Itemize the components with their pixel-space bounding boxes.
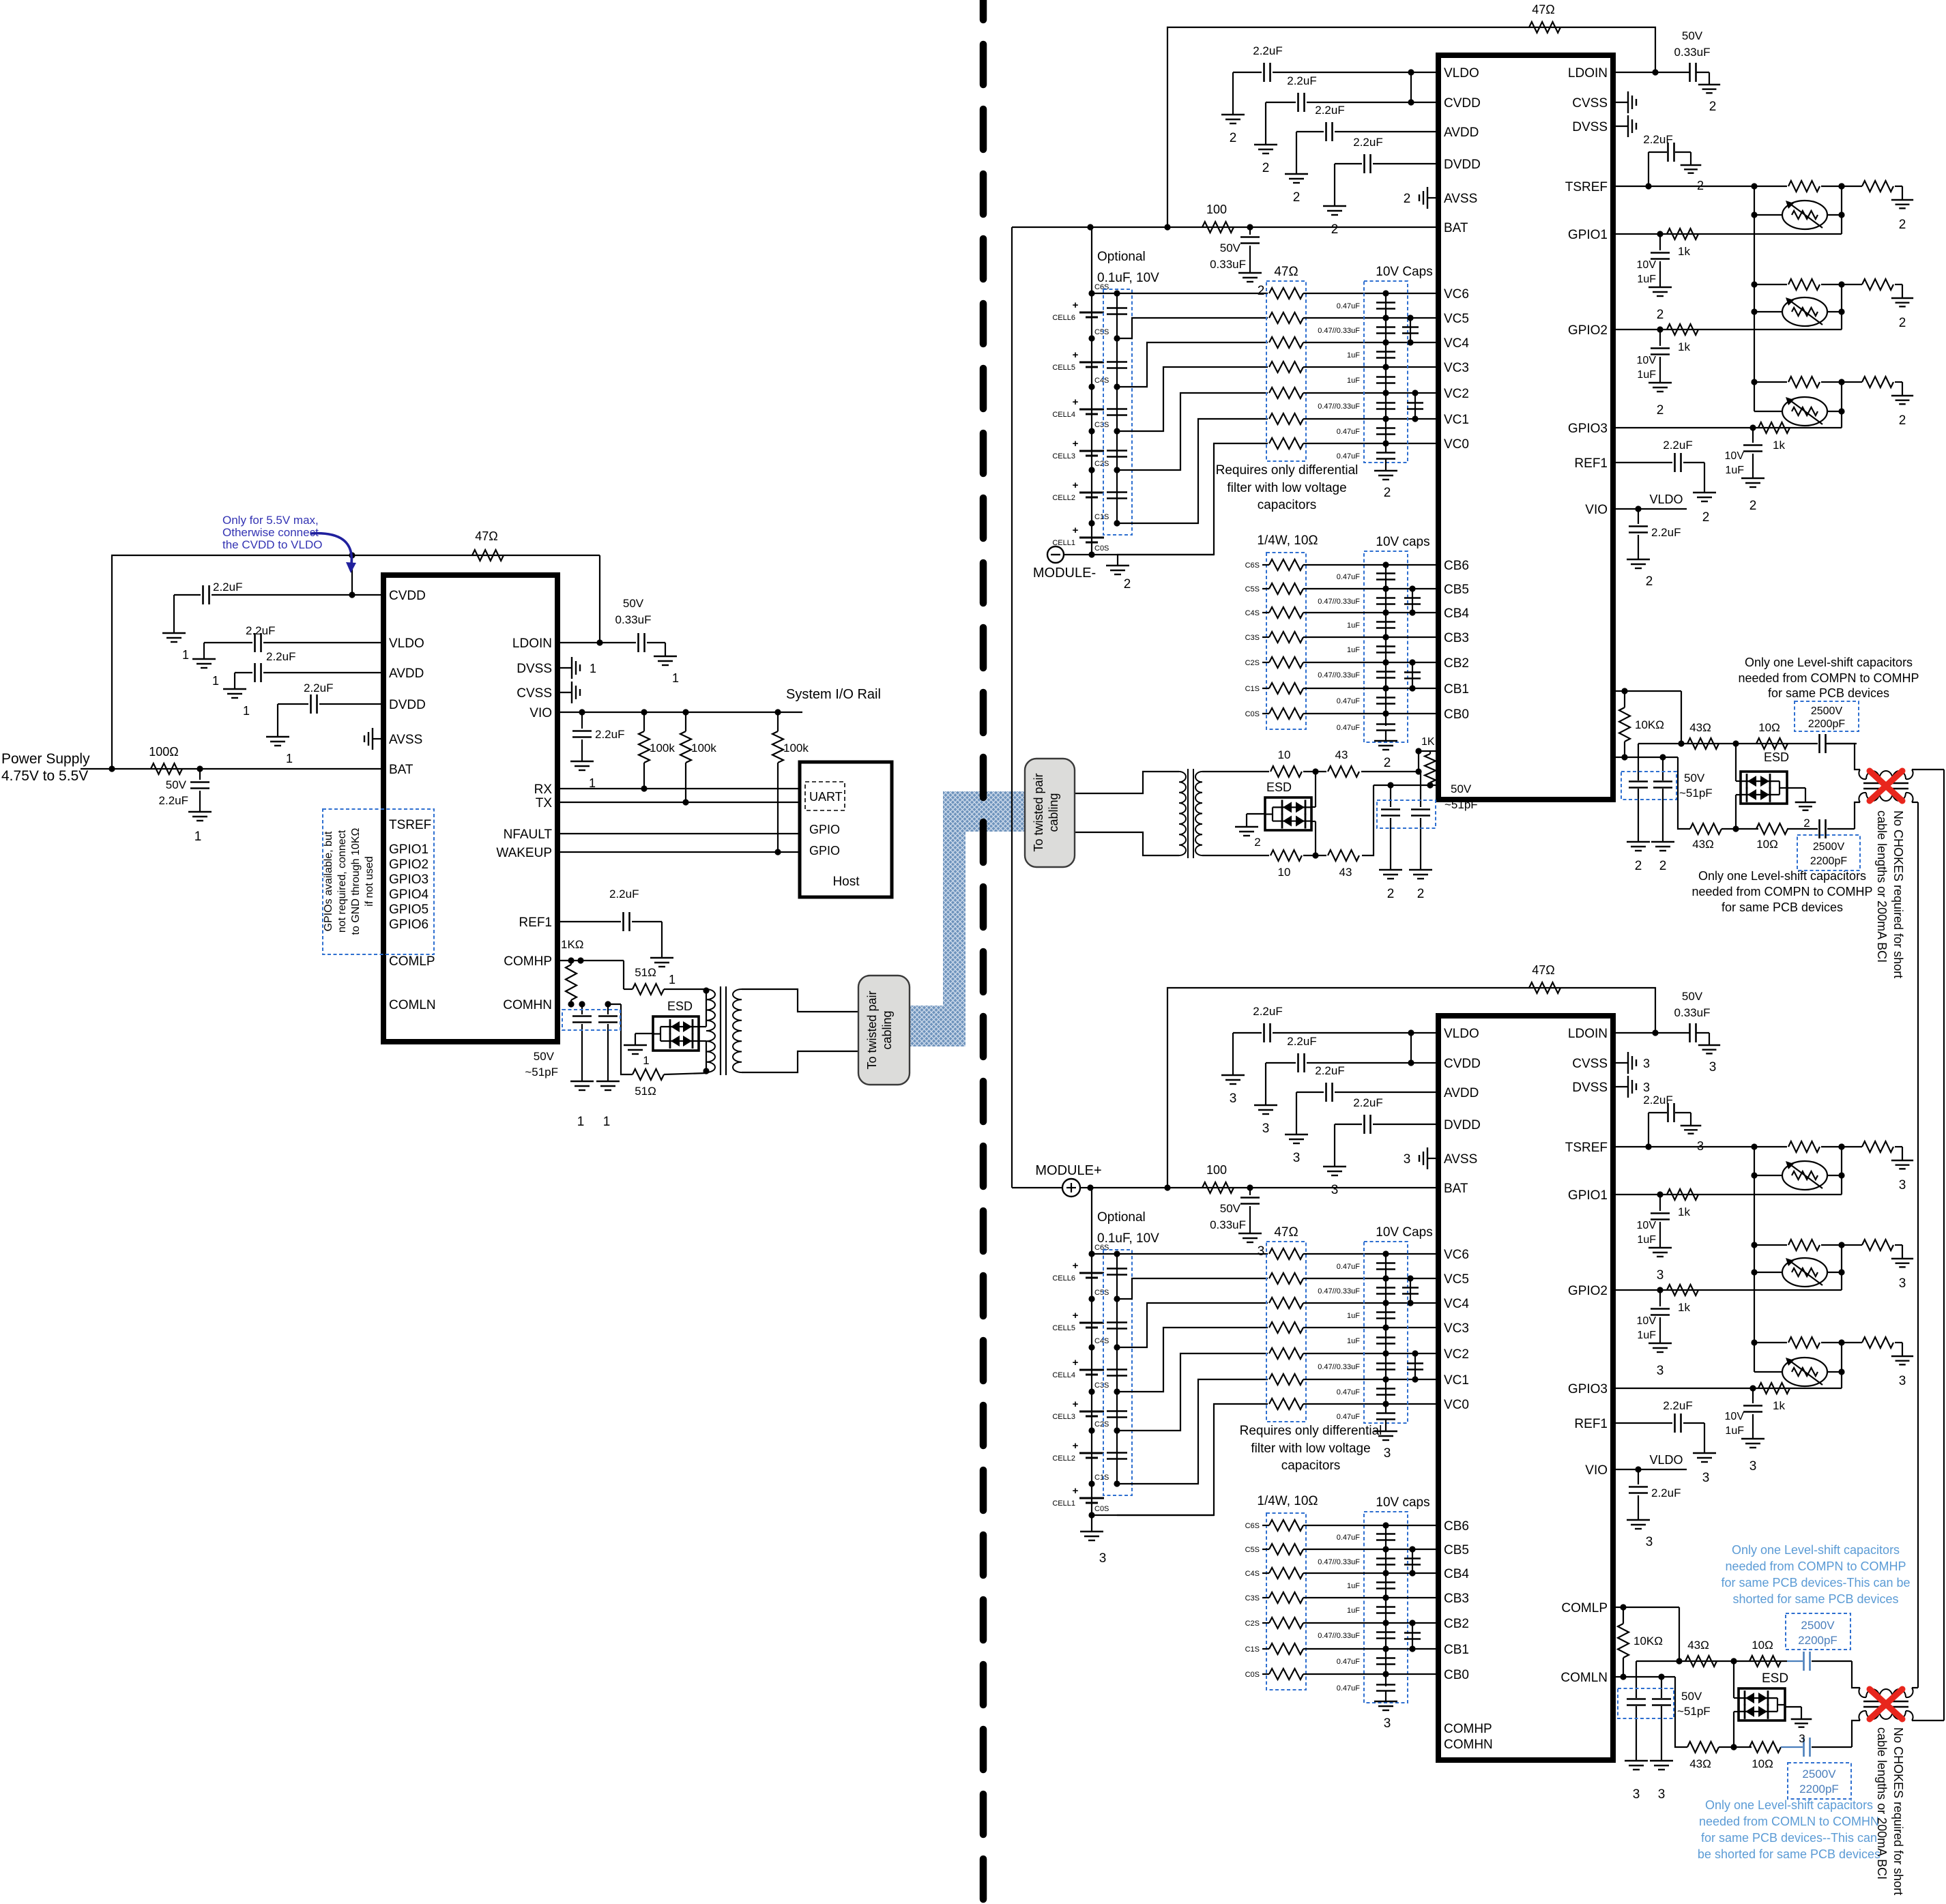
wire top path U3 (1636, 1660, 1679, 1662)
transformer T1 (706, 989, 715, 1072)
svg-text:VLDO: VLDO (1444, 1027, 1479, 1041)
ESD protection diodes (653, 1016, 699, 1051)
capacitor 0.1uF C6S-C5S U3 (1107, 1268, 1127, 1270)
wire C1S to VC1 U2 (1117, 419, 1268, 523)
svg-text:0.47//0.33uF: 0.47//0.33uF (1318, 671, 1360, 679)
wire LDOIN U3 (1613, 1032, 1689, 1034)
svg-text:Optional: Optional (1097, 1210, 1146, 1225)
terminal MODULE+ U3 (1062, 1179, 1080, 1197)
resistor to ground GPIO1 U2 (1862, 181, 1893, 192)
capacitor ~51pF left U2r (1638, 744, 1639, 780)
svg-text:50V: 50V (1682, 990, 1703, 1003)
wire MODULE+ to BAT rail U3 (1080, 1187, 1090, 1188)
wire twisted-pair cable band (lower horizontal run) (908, 1006, 965, 1046)
svg-text:3: 3 (1258, 1244, 1265, 1259)
wire COMHP U2 (1613, 690, 1681, 692)
svg-text:C1S: C1S (1245, 1645, 1260, 1654)
svg-text:VLDO: VLDO (1649, 493, 1683, 506)
svg-text:2.2uF: 2.2uF (1643, 133, 1672, 146)
svg-text:3: 3 (1404, 1152, 1411, 1167)
svg-text:100k: 100k (783, 742, 809, 755)
svg-text:Power Supply: Power Supply (1, 751, 90, 767)
UART dashed box (805, 782, 845, 810)
wire top rail BAT to LDOIN U2 (1167, 27, 1655, 227)
svg-text:CELL4: CELL4 (1052, 1371, 1075, 1379)
note 10V caps dashed box (CB) U3 (1364, 1512, 1408, 1703)
ESD protection diodes U3 (1739, 1688, 1785, 1720)
wire C5S to VC5 U2 (1117, 318, 1268, 338)
svg-text:3: 3 (1384, 1716, 1391, 1731)
ground 2 REF1 U2 (1693, 492, 1716, 493)
ESD protection diodes U2 left (1265, 797, 1311, 830)
svg-text:100Ω: 100Ω (149, 745, 179, 759)
svg-text:1uF: 1uF (1347, 646, 1360, 654)
battery CELL5 U2 (1079, 362, 1104, 364)
capacitor 50V 0.33uF BAT U3 (1249, 1188, 1251, 1195)
svg-text:REF1: REF1 (1574, 456, 1608, 471)
svg-text:2500V: 2500V (1813, 841, 1845, 853)
resistor 10Ω CB3 U2 (1269, 632, 1303, 643)
wire VLDO U3 (1273, 1032, 1438, 1034)
battery CELL4 U3 (1079, 1369, 1104, 1371)
svg-text:COMHN: COMHN (1444, 1738, 1493, 1752)
svg-text:47Ω: 47Ω (475, 529, 497, 543)
capacitor 50V 0.33uF LDOIN U3 (1689, 1023, 1691, 1042)
wire LDOIN to cap (557, 642, 636, 643)
svg-text:100k: 100k (691, 742, 716, 755)
svg-text:0.47uF: 0.47uF (1337, 1413, 1361, 1421)
svg-text:VC2: VC2 (1444, 1347, 1469, 1362)
svg-text:2.2uF: 2.2uF (1643, 1094, 1672, 1107)
wire AVDD U3 (1335, 1092, 1438, 1093)
svg-text:TSREF: TSREF (1565, 180, 1608, 194)
capacitor 1uF CB4-CB3 U2 (1376, 621, 1395, 623)
svg-text:ESD: ESD (1762, 1671, 1788, 1686)
wire top rail BAT to LDOIN U3 (1167, 988, 1655, 1188)
battery CELL1 U2 (1079, 537, 1104, 539)
svg-text:C0S: C0S (1094, 544, 1109, 553)
svg-text:CELL5: CELL5 (1052, 1324, 1075, 1332)
svg-text:COMLN: COMLN (1560, 1671, 1608, 1685)
resistor 47Ω VC5 U3 (1269, 1273, 1303, 1284)
capacitor 2.2uF TSREF U3 (1648, 1113, 1649, 1147)
wire optional cap column U3 (1116, 1254, 1118, 1484)
svg-text:3: 3 (1099, 1551, 1107, 1566)
svg-text:VC0: VC0 (1444, 1398, 1469, 1412)
resistor 10Ω CB5 U3 (1269, 1544, 1303, 1555)
svg-text:2: 2 (1230, 131, 1237, 145)
wire COMLP U2 (1419, 750, 1438, 752)
svg-text:LDOIN: LDOIN (1568, 1027, 1608, 1041)
svg-text:Optional: Optional (1097, 250, 1146, 264)
capacitor 2.2uF VIO U3 (1638, 1469, 1639, 1484)
capacitor 0.47uF CB1-CB0 U2 (1376, 697, 1395, 699)
svg-text:50V: 50V (1682, 29, 1703, 42)
svg-text:2.2uF: 2.2uF (213, 581, 242, 594)
svg-text:50V: 50V (1220, 241, 1241, 254)
wire CB cap column U3 (1385, 1525, 1386, 1686)
svg-text:10V Caps: 10V Caps (1376, 1225, 1432, 1240)
wire C4S to VC4 U3 (1117, 1303, 1268, 1347)
svg-text:CELL4: CELL4 (1052, 411, 1075, 419)
svg-text:3: 3 (1643, 1057, 1650, 1070)
svg-text:0.47//0.33uF: 0.47//0.33uF (1318, 402, 1360, 411)
svg-text:Host: Host (832, 875, 860, 889)
svg-text:0.33uF: 0.33uF (1210, 1218, 1246, 1231)
note no chokes required U2 (rotated) (1875, 810, 1905, 978)
svg-text:capacitors: capacitors (1258, 498, 1317, 512)
svg-text:2.2uF: 2.2uF (1353, 1096, 1382, 1109)
svg-text:1: 1 (672, 671, 679, 685)
ground CVSS side U3 (1613, 1062, 1628, 1064)
svg-text:DVSS: DVSS (517, 662, 552, 676)
wire ESD stub bottom U2 (1311, 821, 1316, 822)
capacitor 50V 0.33uF LDOIN (637, 633, 639, 652)
note 50V ~51pF dashed box (562, 1010, 620, 1030)
svg-text:10: 10 (1278, 866, 1291, 879)
svg-text:CB1: CB1 (1444, 682, 1469, 697)
capacitor 0.33uF VC2-VC1 U2 (1414, 393, 1416, 419)
svg-text:1uF: 1uF (1347, 1337, 1360, 1345)
svg-text:TX: TX (536, 796, 553, 810)
svg-text:2.2uF: 2.2uF (1315, 104, 1344, 117)
capacitor ~51pF right U3 (1661, 1677, 1662, 1698)
svg-text:43Ω: 43Ω (1687, 1639, 1709, 1652)
svg-text:Only one Level-shift capacitor: Only one Level-shift capacitors (1698, 869, 1866, 883)
svg-text:2: 2 (1254, 836, 1260, 849)
svg-text:CB0: CB0 (1444, 707, 1469, 722)
capacitor 0.33uF VC5-VC4 U2 (1410, 318, 1411, 342)
svg-text:2: 2 (1899, 413, 1906, 428)
ground 3 C0S U3 (1091, 1515, 1092, 1532)
wire NFAULT to host (557, 833, 800, 834)
svg-text:~51pF: ~51pF (1444, 798, 1478, 811)
wire ESD to transformer node (699, 1026, 706, 1027)
resistor 10Ω bottom U2 (1756, 823, 1788, 834)
capacitor 0.1uF C3S-C2S U3 (1107, 1410, 1127, 1412)
svg-text:VC5: VC5 (1444, 1272, 1469, 1287)
svg-text:2: 2 (1404, 192, 1411, 206)
svg-text:2: 2 (1659, 859, 1667, 873)
svg-text:CELL3: CELL3 (1052, 452, 1075, 460)
resistor 10Ω CB0 U3 (1269, 1669, 1303, 1680)
ground 3 cap right U3 (1650, 1760, 1673, 1761)
svg-text:2: 2 (1646, 574, 1653, 589)
ground 1 ESD (624, 1044, 647, 1046)
svg-text:C4S: C4S (1245, 609, 1260, 617)
capacitor 0.47//0.33uF VC2-VC1 U3 (1376, 1362, 1395, 1364)
svg-text:VLDO: VLDO (1649, 1453, 1683, 1467)
resistor 43 lower U2 (1328, 850, 1359, 861)
thermistor GPIO3 U3 (1754, 1371, 1782, 1373)
ground 3 VIO U3 (1627, 1519, 1650, 1521)
svg-text:Only for 5.5V max,: Only for 5.5V max, (222, 514, 319, 527)
svg-text:10V: 10V (1637, 1220, 1657, 1231)
svg-text:51Ω: 51Ω (635, 1085, 656, 1098)
wire ESD ground U2r (1787, 787, 1805, 789)
capacitor 0.47//0.33uF CB5-CB4 U2 (1376, 597, 1395, 599)
wire COMLN drop to lower pair U2 (1362, 785, 1374, 855)
ground 2 GPIO1 divider U2 (1891, 199, 1913, 201)
svg-text:2.2uF: 2.2uF (1315, 1064, 1344, 1077)
resistor divider top GPIO1 U2 (1754, 186, 1787, 187)
svg-text:0.47//0.33uF: 0.47//0.33uF (1318, 327, 1360, 335)
resistor 10Ω CB6 U2 (1269, 559, 1303, 570)
svg-text:10V: 10V (1637, 355, 1657, 366)
svg-text:1/4W, 10Ω: 1/4W, 10Ω (1257, 533, 1318, 548)
wire AVDD U2 (1335, 131, 1438, 132)
svg-text:2200pF: 2200pF (1808, 718, 1845, 730)
svg-text:+: + (1073, 1398, 1079, 1410)
svg-text:C3S: C3S (1245, 634, 1260, 642)
battery CELL5 U3 (1079, 1322, 1104, 1324)
svg-text:43: 43 (1339, 866, 1352, 879)
svg-text:filter with low voltage: filter with low voltage (1227, 481, 1346, 495)
resistor 10 lower U2 (1270, 850, 1302, 861)
svg-text:C5S: C5S (1245, 1546, 1260, 1554)
wire COMHN drop U2 (1678, 757, 1690, 829)
resistor 1k GPIO2 U2 (1667, 324, 1698, 335)
resistor to ground GPIO1 U3 (1862, 1141, 1893, 1152)
svg-text:Only one Level-shift capacitor: Only one Level-shift capacitors (1745, 656, 1913, 669)
wire DVDD U3 (1373, 1124, 1438, 1125)
svg-text:1k: 1k (1678, 245, 1690, 258)
svg-text:0.33uF: 0.33uF (615, 613, 652, 626)
svg-text:0.33uF: 0.33uF (1674, 46, 1711, 59)
capacitor 0.47uF CB6-CB5 U3 (1376, 1533, 1395, 1535)
capacitor 2.2uF TSREF U2 (1648, 152, 1649, 186)
resistor 1k GPIO1 U2 (1667, 229, 1698, 239)
ground 2 GPIO1 U2 (1649, 287, 1672, 288)
wire ESD to ground (635, 1033, 653, 1034)
svg-text:2200pF: 2200pF (1798, 1634, 1838, 1647)
ground 1 DVDD (266, 736, 289, 737)
svg-text:2: 2 (1417, 887, 1425, 901)
svg-text:GPIO1: GPIO1 (1568, 228, 1608, 242)
svg-text:CB6: CB6 (1444, 559, 1469, 573)
svg-text:0.1uF, 10V: 0.1uF, 10V (1097, 271, 1159, 285)
svg-text:2: 2 (1384, 486, 1391, 500)
svg-text:NFAULT: NFAULT (504, 827, 553, 842)
svg-text:47Ω: 47Ω (1532, 963, 1554, 977)
note 10V caps dashed box (CB) U2 (1364, 551, 1408, 742)
resistor divider top GPIO3 U2 (1754, 381, 1787, 383)
ground 3 AVDD cap U3 (1285, 1134, 1308, 1135)
capacitor 0.33uF CB2-CB1 U2 (1412, 662, 1413, 688)
ground 3 CB caps U3 (1374, 1701, 1397, 1702)
svg-text:3: 3 (1899, 1276, 1906, 1291)
wire VC6 row U2 (1092, 293, 1268, 294)
wire LDOIN drop (599, 555, 600, 643)
ground 3 GPIO2 U3 (1649, 1343, 1672, 1344)
svg-text:VLDO: VLDO (1444, 66, 1479, 80)
wire COMLP U3 (1613, 1607, 1679, 1608)
svg-text:2.2uF: 2.2uF (1663, 1399, 1692, 1412)
wire VLDO-CVDD tie U3 (1410, 1033, 1412, 1063)
capacitor 0.33uF VC5-VC4 U3 (1410, 1278, 1411, 1303)
ground AVSS side U2 (1427, 197, 1438, 199)
ground 2 GPIO2 divider U2 (1891, 297, 1913, 299)
ground 2 GPIO3 divider U2 (1891, 395, 1913, 396)
svg-text:0.47//0.33uF: 0.47//0.33uF (1318, 1287, 1360, 1295)
resistor 10KΩ U3 (1618, 1624, 1629, 1658)
resistor divider top GPIO2 U2 (1754, 284, 1787, 285)
svg-text:CB5: CB5 (1444, 583, 1469, 597)
wire COMLN drop U3 (1675, 1677, 1687, 1747)
wire 43-10 lower U2 (1303, 855, 1326, 856)
capacitor 0.1uF C4S-C3S U3 (1107, 1368, 1127, 1371)
svg-text:1uF: 1uF (1637, 1330, 1656, 1341)
resistor 47Ω VC1 U2 (1269, 413, 1303, 424)
svg-text:BAT: BAT (1444, 221, 1468, 235)
choke (not required) U2 (1825, 744, 1860, 770)
capacitor 0.47uF below VC0 U3 (1376, 1412, 1395, 1414)
resistor 100k RX pullup (643, 712, 645, 731)
capacitor 2.2uF REF1 (557, 921, 621, 922)
resistor 47Ω VC3 U3 (1269, 1322, 1303, 1333)
svg-text:1k: 1k (1773, 1399, 1785, 1412)
svg-text:4.75V to 5.5V: 4.75V to 5.5V (1, 768, 88, 784)
svg-text:C2S: C2S (1245, 659, 1260, 667)
note 10V Caps dashed box U2 (1364, 281, 1408, 463)
svg-text:COMHN: COMHN (503, 998, 552, 1012)
wire thermistor riser GPIO2 U2 (1841, 284, 1842, 329)
ground 2 AVDD cap U2 (1285, 173, 1308, 175)
svg-text:CVSS: CVSS (517, 686, 552, 701)
svg-text:2: 2 (1293, 190, 1301, 205)
svg-text:C5S: C5S (1094, 328, 1109, 336)
capacitor 0.1uF C2S-C1S U2 (1107, 491, 1127, 493)
svg-text:0.47//0.33uF: 0.47//0.33uF (1318, 1632, 1360, 1640)
svg-text:1k: 1k (1773, 439, 1785, 452)
resistor 10Ω CB5 U2 (1269, 583, 1303, 594)
connector To twisted pair cabling (left) (858, 976, 910, 1085)
wire transformer secondary top (742, 989, 858, 1012)
svg-text:UART: UART (809, 790, 843, 804)
resistor to ground GPIO2 U3 (1862, 1240, 1893, 1250)
IC U3 battery monitor (stack device) (1438, 1016, 1613, 1760)
resistor 10Ω CB6 U3 (1269, 1520, 1303, 1531)
svg-text:VC1: VC1 (1444, 413, 1469, 427)
ground 1 REF1 (650, 957, 673, 958)
svg-text:3: 3 (1262, 1122, 1270, 1136)
svg-text:2.2uF: 2.2uF (1651, 526, 1681, 539)
svg-text:DVSS: DVSS (1572, 1081, 1608, 1095)
wire COMLN U3 (1613, 1676, 1675, 1678)
svg-text:C2S: C2S (1094, 1420, 1109, 1429)
svg-text:0.47uF: 0.47uF (1337, 428, 1361, 436)
svg-text:filter with low voltage: filter with low voltage (1251, 1441, 1370, 1456)
capacitor 10V 1uF GPIO2 U2 (1659, 329, 1661, 346)
svg-text:~51pF: ~51pF (1679, 787, 1713, 800)
svg-text:10: 10 (1278, 748, 1291, 761)
svg-text:AVSS: AVSS (1444, 192, 1477, 206)
ground DVSS side U2 (1613, 126, 1628, 127)
wire C4S to VC4 U2 (1117, 342, 1268, 387)
svg-text:3: 3 (1702, 1471, 1710, 1485)
svg-text:cable lengths or 200mA BCI: cable lengths or 200mA BCI (1875, 810, 1889, 963)
svg-text:10Ω: 10Ω (1756, 838, 1778, 851)
note optional caps dashed box U2 (1103, 289, 1132, 535)
svg-text:1KΩ: 1KΩ (561, 938, 584, 951)
svg-text:100: 100 (1206, 1163, 1227, 1177)
capacitor 1uF VC4-VC3 U3 (1376, 1311, 1395, 1313)
svg-text:2: 2 (1709, 100, 1717, 114)
ground 2 VIO U2 (1627, 559, 1650, 560)
ground 1 CVDD (162, 632, 186, 634)
svg-text:VIO: VIO (529, 706, 552, 720)
svg-text:BAT: BAT (389, 763, 413, 777)
IC U1 battery monitor (base device) (383, 575, 557, 1042)
svg-text:1: 1 (669, 973, 676, 986)
svg-text:C2S: C2S (1094, 460, 1109, 468)
svg-text:for same PCB devices-This can: for same PCB devices-This can be (1721, 1576, 1910, 1590)
wire TSREF vertical rail U3 (1754, 1147, 1755, 1372)
wire 43-10 upper U2 (1303, 771, 1326, 772)
svg-text:for same PCB devices: for same PCB devices (1768, 686, 1889, 700)
ground 2 C0S U2 (1117, 555, 1118, 566)
svg-text:10V caps: 10V caps (1376, 535, 1429, 549)
capacitor 0.33uF CB5-CB4 U3 (1412, 1549, 1413, 1573)
ground 3 GPIO1 divider U3 (1891, 1160, 1913, 1161)
capacitor 2200pF top U3 (blue) (1787, 1660, 1803, 1662)
capacitor 2.2uF VIO (581, 712, 583, 729)
svg-text:ESD: ESD (667, 999, 693, 1013)
svg-text:C1S: C1S (1094, 513, 1109, 521)
svg-text:10V Caps: 10V Caps (1376, 265, 1432, 279)
svg-text:to GND through 10KΩ: to GND through 10KΩ (350, 828, 362, 935)
capacitor 2200pF bottom U3 (blue) (1781, 1746, 1803, 1748)
svg-text:3: 3 (1709, 1060, 1717, 1074)
svg-text:C3S: C3S (1245, 1594, 1260, 1602)
resistor 10Ω CB4 U3 (1269, 1568, 1303, 1579)
svg-text:51Ω: 51Ω (635, 966, 656, 979)
resistor 47Ω VC6 U3 (1269, 1248, 1303, 1259)
svg-text:2.2uF: 2.2uF (1663, 439, 1692, 452)
ground 3 GPIO1 U3 (1649, 1247, 1672, 1248)
ground CVSS (side) (557, 692, 572, 693)
ground 2 cap left U2r (1627, 841, 1650, 843)
ground 3 GPIO3 divider U3 (1891, 1356, 1913, 1357)
wire LDOIN U2 (1613, 72, 1689, 73)
ground 2 LDOIN U2 (1698, 84, 1720, 85)
svg-text:0.47//0.33uF: 0.47//0.33uF (1318, 598, 1360, 606)
svg-text:GPIO2: GPIO2 (389, 858, 429, 872)
wire GPIO1 U3 (1613, 1194, 1842, 1195)
choke symbol U2 (1859, 770, 1866, 779)
wire C0S row U3 (1092, 1514, 1214, 1516)
ground 2 GPIO2 U2 (1649, 382, 1672, 383)
svg-text:0.47//0.33uF: 0.47//0.33uF (1318, 1558, 1360, 1566)
wire COMHP (557, 960, 624, 961)
wire ESD ground U3 (1785, 1706, 1801, 1708)
wire DVDD U2 (1373, 163, 1438, 164)
capacitor 1uF CB3-CB2 U3 (1376, 1606, 1395, 1608)
svg-text:VC6: VC6 (1444, 1248, 1469, 1262)
svg-text:1: 1 (212, 674, 219, 688)
svg-text:2: 2 (1124, 577, 1131, 591)
svg-text:0.47uF: 0.47uF (1337, 1684, 1361, 1693)
svg-text:3: 3 (1230, 1092, 1237, 1106)
wire C1S to VC1 U3 (1117, 1379, 1268, 1484)
capacitor 0.47//0.33uF CB5-CB4 U3 (1376, 1557, 1395, 1559)
resistor 47Ω top (472, 550, 504, 561)
svg-text:GPIO3: GPIO3 (1568, 422, 1608, 436)
thermistor GPIO1 U3 (1754, 1175, 1782, 1176)
capacitor 0.1uF C6S-C5S U2 (1107, 307, 1127, 309)
capacitor 50V 0.33uF BAT U2 (1249, 227, 1251, 235)
capacitor 1uF VC3-VC2 U3 (1376, 1336, 1395, 1338)
